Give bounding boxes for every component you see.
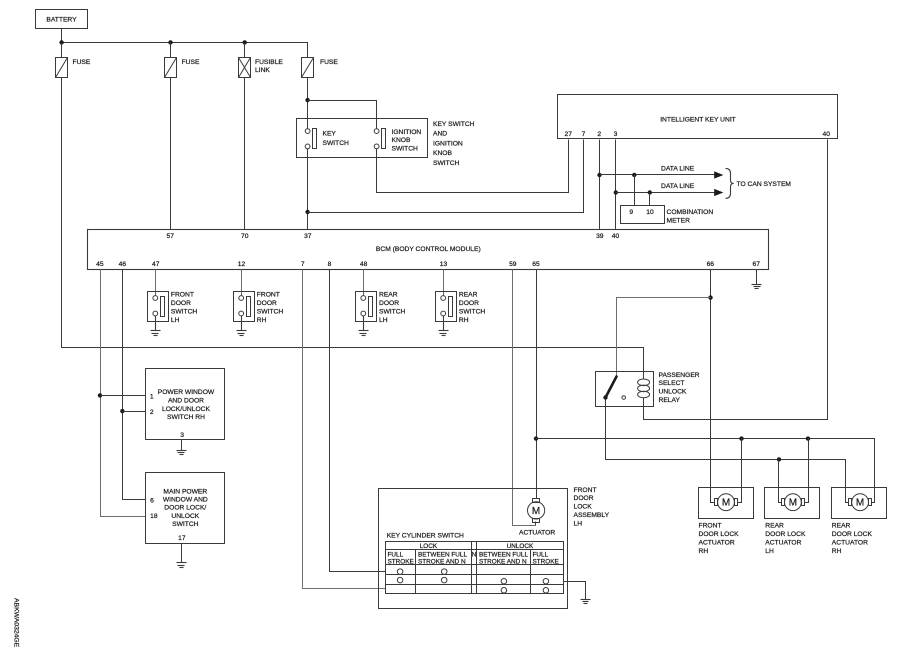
svg-text:FUSE: FUSE [182, 59, 200, 66]
node combination meter pin9 junction [632, 173, 636, 177]
svg-text:N: N [472, 551, 477, 558]
svg-text:ABKWA0324GE: ABKWA0324GE [13, 598, 20, 648]
svg-text:RH: RH [832, 548, 842, 555]
svg-text:37: 37 [304, 233, 312, 240]
svg-text:FRONT: FRONT [171, 292, 194, 299]
svg-text:FUSE: FUSE [320, 59, 338, 66]
svg-text:SWITCH: SWITCH [257, 308, 284, 315]
node data line 2 start [614, 190, 618, 194]
front door switch LH [148, 292, 198, 324]
fusible link FL [239, 58, 284, 78]
svg-text:IGNITION: IGNITION [392, 129, 422, 136]
ground under front door switch LH [151, 316, 161, 336]
brace to CAN system [726, 168, 734, 198]
svg-text:39: 39 [596, 233, 604, 240]
front door switch RH [234, 292, 284, 324]
svg-text:66: 66 [707, 261, 715, 268]
wire to combination meter pin10 [649, 193, 651, 206]
svg-text:FRONT: FRONT [699, 523, 722, 530]
svg-text:DATA LINE: DATA LINE [661, 183, 695, 190]
svg-text:BATTERY: BATTERY [46, 16, 77, 23]
lock full stroke contacts [397, 569, 403, 575]
svg-text:LH: LH [171, 317, 180, 324]
svg-text:10: 10 [646, 209, 654, 216]
svg-text:40: 40 [822, 131, 830, 138]
wire IKU pin40 to relay coil [644, 140, 828, 420]
svg-text:18: 18 [150, 513, 158, 520]
unlock between contacts [501, 578, 507, 584]
svg-text:17: 17 [178, 535, 186, 542]
svg-text:STROKE: STROKE [533, 559, 559, 566]
rear door switch LH [356, 292, 406, 324]
svg-text:2: 2 [597, 131, 601, 138]
unlock full stroke contacts [543, 578, 549, 584]
node pin45 branch [98, 393, 102, 397]
wire BCM pin8 to key cylinder switch [330, 270, 386, 572]
svg-text:REAR: REAR [379, 292, 398, 299]
ground under PW switch [177, 451, 187, 455]
ground under main PW switch [177, 563, 187, 568]
wire branch to ignition knob switch [308, 101, 377, 129]
front door lock assembly LH box [379, 489, 568, 609]
label key switch and ignition knob switch [433, 121, 475, 167]
svg-text:6: 6 [150, 497, 154, 504]
wire IKU pin2 to BCM pin39 [599, 140, 601, 230]
rear door switch RH [436, 292, 486, 324]
svg-text:ACTUATOR: ACTUATOR [765, 540, 801, 547]
node pin65 / lock line junction [534, 436, 538, 440]
svg-text:7: 7 [582, 131, 586, 138]
svg-text:59: 59 [509, 261, 517, 268]
node fuse4 branch [305, 98, 309, 102]
wire pin46 branch to PW switch pin2 [123, 411, 146, 413]
node combination meter pin10 junction [648, 190, 652, 194]
combination meter U2 [621, 206, 714, 225]
svg-text:ACTUATOR: ACTUATOR [519, 530, 555, 537]
svg-text:COMBINATION: COMBINATION [667, 209, 714, 216]
wire pin66 branch to relay switch [617, 298, 711, 377]
wire bus [62, 43, 308, 58]
svg-text:46: 46 [119, 261, 127, 268]
wire BCM pin13 to rear door switch RH [443, 270, 445, 296]
svg-text:1: 1 [150, 393, 154, 400]
svg-text:AND DOOR: AND DOOR [168, 398, 204, 405]
BCM body control module U3 [88, 230, 769, 270]
svg-text:40: 40 [612, 233, 620, 240]
node pin66 / relay junction [708, 295, 712, 299]
svg-text:SWITCH: SWITCH [459, 308, 486, 315]
svg-text:DOOR LOCK: DOOR LOCK [765, 531, 806, 538]
wire key switch to BCM pin37 [307, 149, 309, 230]
svg-text:LH: LH [765, 548, 774, 555]
wire BCM pin66 to front door lock actuator RH [711, 270, 715, 503]
svg-text:M: M [856, 498, 864, 509]
wire branch to front door lock actuator RH [738, 439, 742, 503]
svg-text:FRONT: FRONT [574, 487, 597, 494]
wire BCM pin12 to front door switch RH [241, 270, 243, 296]
svg-text:M: M [722, 498, 730, 509]
ground under rear door switch RH [439, 316, 449, 336]
ground under key cylinder switch [581, 600, 591, 604]
wire branch to IKU pin7 [308, 140, 584, 213]
svg-text:SWITCH RH: SWITCH RH [167, 414, 205, 421]
svg-text:LOCK: LOCK [574, 504, 593, 511]
svg-text:DOOR: DOOR [459, 300, 479, 307]
svg-text:DOOR LOCK: DOOR LOCK [699, 531, 740, 538]
svg-text:LOCK/UNLOCK: LOCK/UNLOCK [162, 406, 210, 413]
svg-text:KEY: KEY [323, 131, 337, 138]
svg-text:ACTUATOR: ACTUATOR [699, 540, 735, 547]
node fusible link junction [243, 40, 247, 44]
svg-text:KNOB: KNOB [392, 137, 411, 144]
node data line 1 start [597, 173, 601, 177]
wire IKU pin3 to BCM pin40 [615, 140, 617, 230]
svg-text:FULL: FULL [533, 551, 549, 558]
svg-text:AND: AND [433, 131, 447, 138]
svg-text:POWER WINDOW: POWER WINDOW [158, 389, 215, 396]
svg-text:RH: RH [699, 548, 709, 555]
rear door lock actuator LH [765, 488, 820, 556]
lock between contacts [441, 569, 447, 575]
svg-text:67: 67 [752, 261, 760, 268]
wire bus to fuse2 [170, 43, 172, 58]
wire ignition knob switch to IKU pin27 [377, 140, 569, 193]
svg-text:IGNITION: IGNITION [433, 140, 463, 147]
wire main PW switch pin17 to ground [181, 544, 183, 563]
svg-text:DATA LINE: DATA LINE [661, 166, 695, 173]
battery [36, 10, 88, 29]
wire BCM pin65 to front door lock actuator LH [536, 270, 538, 499]
wire fuse4 to key switch [307, 78, 309, 129]
svg-text:LH: LH [379, 317, 388, 324]
svg-text:RH: RH [257, 317, 267, 324]
svg-text:SELECT: SELECT [659, 380, 685, 387]
svg-text:UNLOCK: UNLOCK [171, 513, 199, 520]
rear door lock actuator RH [832, 488, 887, 556]
svg-text:70: 70 [241, 233, 249, 240]
ignition knob switch S2 [374, 129, 421, 153]
svg-text:13: 13 [440, 261, 448, 268]
wire relay switch to rear actuators (unlock line) [606, 400, 849, 503]
svg-text:47: 47 [152, 261, 160, 268]
svg-text:3: 3 [614, 131, 618, 138]
fuse F4 [302, 58, 339, 78]
ground under BCM pin67 [752, 285, 762, 289]
wire BCM pin47 to front door switch LH [155, 270, 157, 296]
svg-text:48: 48 [360, 261, 368, 268]
fuse F2 [165, 58, 200, 78]
svg-text:65: 65 [532, 261, 540, 268]
key cylinder switch table [386, 532, 564, 593]
fuse F1 [56, 58, 91, 78]
power window and door lock/unlock switch RH [146, 369, 225, 440]
wire BCM pin48 to rear door switch LH [363, 270, 365, 296]
svg-text:FUSE: FUSE [73, 59, 91, 66]
label front door lock assembly LH [574, 487, 610, 528]
svg-text:SWITCH: SWITCH [172, 521, 199, 528]
svg-text:12: 12 [238, 261, 246, 268]
intelligent key unit U1 [558, 95, 838, 139]
wire battery to bus [61, 29, 63, 43]
svg-text:TO CAN SYSTEM: TO CAN SYSTEM [737, 181, 792, 188]
wire PW switch pin3 to ground [181, 440, 183, 451]
svg-text:9: 9 [629, 209, 633, 216]
svg-text:STROKE AND N: STROKE AND N [418, 559, 466, 566]
node lock line / front actuator RH branch [739, 436, 743, 440]
svg-text:45: 45 [96, 261, 104, 268]
wire BCM pin7 to key cylinder switch [303, 270, 386, 589]
wire branch to rear door lock actuator LH right side [805, 439, 809, 503]
svg-text:SWITCH: SWITCH [323, 140, 350, 147]
svg-text:KEY SWITCH: KEY SWITCH [433, 121, 475, 128]
wire data line 1 [600, 174, 715, 176]
main power window and door lock/unlock switch [146, 473, 225, 544]
svg-text:WINDOW AND: WINDOW AND [163, 497, 208, 504]
svg-text:SWITCH: SWITCH [171, 308, 198, 315]
table header texts [388, 543, 559, 566]
svg-text:M: M [532, 506, 540, 517]
node battery/fuse junction [59, 40, 63, 44]
actuator motor M1 (front door lock assembly) [519, 499, 555, 537]
svg-text:ACTUATOR: ACTUATOR [832, 540, 868, 547]
wire fuse1 down-left long run to relay coil [62, 78, 644, 380]
wire data line 2 [616, 192, 715, 194]
wire fuse2 to BCM pin57 [170, 78, 172, 230]
wire pin45 branch to PW switch pin1 [101, 395, 146, 397]
svg-text:LOCK: LOCK [420, 543, 438, 550]
svg-text:DOOR: DOOR [257, 300, 277, 307]
wire BCM pin45 to switches [101, 270, 146, 517]
svg-text:RH: RH [459, 317, 469, 324]
svg-text:UNLOCK: UNLOCK [659, 389, 687, 396]
wire BCM pin46 to switches [123, 270, 146, 500]
wire BCM pin59 to front door lock actuator LH [513, 270, 536, 526]
svg-text:3: 3 [180, 432, 184, 439]
svg-text:FRONT: FRONT [257, 292, 280, 299]
wire to combination meter pin9 [634, 175, 636, 206]
svg-text:METER: METER [667, 218, 691, 225]
wire key cylinder switch to ground [564, 582, 586, 600]
svg-text:FULL: FULL [388, 551, 404, 558]
wire bus to fusible link [244, 43, 246, 58]
svg-text:INTELLIGENT KEY UNIT: INTELLIGENT KEY UNIT [660, 117, 736, 124]
svg-text:REAR: REAR [832, 523, 851, 530]
svg-text:DOOR: DOOR [574, 495, 594, 502]
wire fusible link to BCM pin70 [244, 78, 246, 230]
wire BCM pin67 to ground [756, 270, 758, 285]
wire lock line from pin65 junction to actuators [536, 439, 875, 503]
wire branch to rear door lock actuator LH [779, 460, 782, 503]
svg-text:27: 27 [564, 131, 572, 138]
node pin46 branch [120, 409, 124, 413]
table horizontal lines [386, 549, 564, 551]
front door lock actuator RH [699, 488, 754, 556]
svg-text:DOOR: DOOR [171, 300, 191, 307]
svg-text:SWITCH: SWITCH [392, 146, 419, 153]
svg-text:M: M [789, 498, 797, 509]
node lock line / rear actuator LH branch [806, 436, 810, 440]
key switch and ignition knob switch box [297, 119, 428, 158]
svg-text:8: 8 [328, 261, 332, 268]
node unlock line / rear actuator LH branch [777, 457, 781, 461]
svg-text:UNLOCK: UNLOCK [507, 543, 534, 550]
svg-text:STROKE AND N: STROKE AND N [479, 559, 527, 566]
svg-text:KNOB: KNOB [433, 150, 452, 157]
svg-text:LINK: LINK [255, 67, 270, 74]
svg-text:57: 57 [166, 233, 174, 240]
node key switch / IKU pin7 branch [305, 210, 309, 214]
svg-text:RELAY: RELAY [659, 397, 681, 404]
svg-text:KEY CYLINDER SWITCH: KEY CYLINDER SWITCH [387, 532, 464, 539]
passenger select unlock relay K1 [596, 372, 700, 407]
ground under front door switch RH [237, 316, 247, 336]
svg-text:SWITCH: SWITCH [433, 160, 460, 167]
svg-text:LH: LH [574, 520, 583, 527]
key switch S1 [305, 129, 349, 149]
svg-text:ASSEMBLY: ASSEMBLY [574, 512, 610, 519]
svg-text:BETWEEN FULL: BETWEEN FULL [418, 551, 467, 558]
table vertical lines [415, 550, 417, 594]
wire bus to fuse1 [61, 43, 63, 58]
svg-text:REAR: REAR [765, 523, 784, 530]
svg-text:SWITCH: SWITCH [379, 308, 406, 315]
svg-text:BCM (BODY CONTROL MODULE): BCM (BODY CONTROL MODULE) [376, 246, 481, 253]
svg-text:FUSIBLE: FUSIBLE [255, 59, 283, 66]
svg-text:PASSENGER: PASSENGER [659, 372, 700, 379]
svg-text:7: 7 [301, 261, 305, 268]
svg-text:2: 2 [150, 409, 154, 416]
svg-text:DOOR LOCK/: DOOR LOCK/ [164, 505, 206, 512]
svg-text:REAR: REAR [459, 292, 478, 299]
svg-text:BETWEEN FULL: BETWEEN FULL [479, 551, 528, 558]
svg-text:DOOR LOCK: DOOR LOCK [832, 531, 873, 538]
node fuse2 junction [168, 40, 172, 44]
svg-text:STROKE: STROKE [388, 559, 414, 566]
ground under rear door switch LH [359, 316, 369, 336]
svg-text:DOOR: DOOR [379, 300, 399, 307]
svg-text:MAIN POWER: MAIN POWER [163, 489, 207, 496]
